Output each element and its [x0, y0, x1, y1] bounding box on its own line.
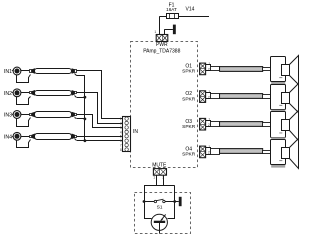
- svg-text:IN2: IN2: [4, 91, 12, 97]
- svg-text:8: 8: [120, 148, 122, 152]
- svg-text:O4: O4: [185, 147, 192, 153]
- svg-text:SPKR: SPKR: [182, 96, 196, 102]
- svg-text:PWR: PWR: [156, 42, 168, 48]
- svg-text:2: 2: [120, 121, 122, 125]
- svg-text:O1: O1: [185, 64, 192, 70]
- svg-text:S1: S1: [157, 205, 163, 210]
- svg-text:IN4: IN4: [4, 134, 12, 140]
- svg-text:IN: IN: [133, 129, 138, 135]
- svg-text:4: 4: [120, 130, 122, 134]
- svg-text:6: 6: [120, 139, 122, 143]
- svg-text:IN3: IN3: [4, 113, 12, 119]
- svg-text:IN1: IN1: [4, 69, 12, 75]
- svg-text:O2: O2: [185, 91, 192, 97]
- svg-text:SPKR: SPKR: [182, 69, 196, 75]
- svg-text:1: 1: [154, 30, 156, 34]
- svg-text:SPKR: SPKR: [182, 152, 196, 158]
- svg-text:3: 3: [120, 126, 122, 130]
- svg-text:16AT: 16AT: [166, 7, 177, 12]
- svg-text:5: 5: [120, 135, 122, 139]
- svg-text:2: 2: [208, 68, 210, 72]
- svg-text:1: 1: [120, 117, 122, 121]
- svg-text:1: 1: [153, 176, 155, 180]
- svg-text:SPKR: SPKR: [182, 124, 196, 130]
- svg-text:MUTE: MUTE: [152, 162, 167, 168]
- svg-text:V14: V14: [186, 6, 195, 12]
- svg-text:7: 7: [120, 144, 122, 148]
- svg-text:PAmp_TDA7388: PAmp_TDA7388: [143, 49, 180, 55]
- svg-text:O3: O3: [185, 119, 192, 125]
